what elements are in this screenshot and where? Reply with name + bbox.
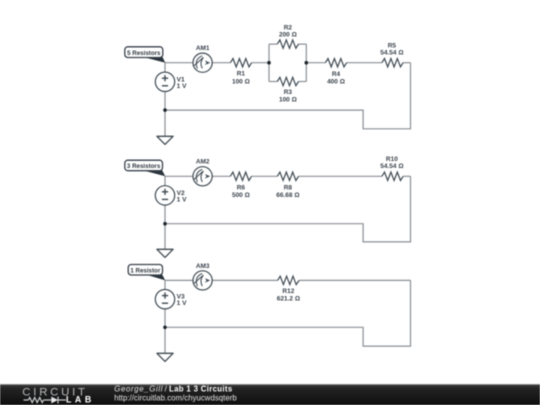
label R12 value bbox=[277, 288, 300, 303]
svg-text:AM3: AM3 bbox=[196, 263, 210, 270]
wire bottom branch right lead bbox=[299, 81, 307, 83]
wire V1 bottom stem bbox=[164, 91, 166, 110]
wire return path circuit 1 bbox=[165, 63, 411, 129]
wire top branch right lead bbox=[299, 43, 307, 45]
wire bottom branch left lead bbox=[269, 81, 277, 83]
CircuitLab logo diode triangle bbox=[51, 397, 58, 404]
svg-text:5 Resistors: 5 Resistors bbox=[127, 50, 161, 57]
wire node1 to AM1 bbox=[165, 62, 193, 64]
label R2 value bbox=[279, 25, 297, 39]
wire R12 to right corner bbox=[299, 279, 410, 281]
wire R4 to R5 bbox=[347, 62, 382, 64]
junction dot below V1 bbox=[163, 108, 167, 112]
resistor R6 bbox=[230, 172, 251, 180]
svg-text:3 Resistors: 3 Resistors bbox=[127, 163, 161, 170]
svg-text:R8: R8 bbox=[284, 185, 293, 192]
svg-text:1 V: 1 V bbox=[177, 83, 187, 90]
svg-text:621.2 Ω: 621.2 Ω bbox=[277, 296, 300, 303]
svg-text:66.68 Ω: 66.68 Ω bbox=[276, 192, 299, 199]
resistor R4 bbox=[325, 59, 346, 67]
ground G2 bbox=[157, 249, 173, 257]
junction dot below V3 bbox=[163, 326, 167, 330]
wire AM3 to R12 bbox=[212, 279, 277, 281]
svg-text:http://circuitlab.com/chyucwds: http://circuitlab.com/chyucwdsqterb bbox=[114, 393, 237, 402]
junction dot below V2 bbox=[163, 222, 167, 226]
label V1 value bbox=[177, 76, 187, 90]
CircuitLab logo circuit drawing bbox=[24, 397, 67, 404]
svg-text:1 V: 1 V bbox=[177, 196, 187, 203]
resistor R1 bbox=[230, 59, 251, 67]
wire R1 to node B bbox=[252, 62, 269, 64]
wire parallel box right vertical bbox=[305, 44, 307, 81]
label R10 value bbox=[380, 156, 403, 170]
wire AM1 to R1 bbox=[212, 62, 230, 64]
resistor R12 bbox=[278, 276, 300, 284]
wire V2 top stem bbox=[164, 176, 166, 186]
annotation callout "3 Resistors" bbox=[125, 160, 166, 176]
annotation callout "5 Resistors" bbox=[125, 47, 166, 63]
ammeter AM3 bbox=[193, 271, 212, 290]
svg-text:1 V: 1 V bbox=[177, 300, 187, 307]
svg-text:R1: R1 bbox=[237, 70, 246, 77]
voltage source V3 bbox=[155, 290, 174, 309]
ground G1 bbox=[157, 136, 173, 144]
svg-text:1 Resistor: 1 Resistor bbox=[130, 268, 161, 275]
wire top branch left lead bbox=[269, 43, 277, 45]
wire node C to R4 bbox=[306, 62, 325, 64]
resistor R2 bbox=[277, 40, 298, 48]
svg-text:R3: R3 bbox=[284, 89, 293, 96]
svg-text:George_Gill: George_Gill bbox=[114, 384, 162, 393]
label R8 value bbox=[276, 185, 299, 199]
svg-text:R4: R4 bbox=[332, 71, 341, 78]
svg-text:100 Ω: 100 Ω bbox=[232, 79, 250, 86]
svg-text:54.54 Ω: 54.54 Ω bbox=[380, 163, 403, 170]
resistor R5 bbox=[382, 59, 403, 67]
voltage source V1 bbox=[155, 72, 174, 91]
svg-text:AM1: AM1 bbox=[196, 45, 210, 52]
label R1 value bbox=[232, 70, 250, 85]
svg-text:LAB: LAB bbox=[66, 394, 91, 404]
svg-text:100 Ω: 100 Ω bbox=[279, 96, 297, 103]
svg-text:R2: R2 bbox=[284, 25, 293, 32]
wire return path circuit 2 bbox=[165, 176, 411, 242]
label R6 value bbox=[232, 185, 250, 199]
wire return path circuit 3 bbox=[165, 280, 411, 346]
svg-text:AM2: AM2 bbox=[196, 159, 210, 166]
wire V2 bottom stem bbox=[164, 205, 166, 224]
ground G3 bbox=[157, 353, 173, 361]
resistor R10 bbox=[382, 172, 403, 180]
svg-text:Lab 1 3 Circuits: Lab 1 3 Circuits bbox=[169, 384, 233, 393]
wire parallel box left vertical bbox=[268, 44, 270, 81]
label R4 value bbox=[327, 71, 345, 85]
svg-text:500 Ω: 500 Ω bbox=[232, 192, 250, 199]
label V3 value bbox=[177, 294, 187, 308]
resistor R3 bbox=[277, 77, 298, 85]
label R5 value bbox=[380, 43, 403, 57]
wire node2 to AM2 bbox=[165, 175, 193, 177]
ammeter AM1 bbox=[193, 53, 212, 72]
svg-text:R6: R6 bbox=[237, 185, 246, 192]
wire R5 to right corner bbox=[403, 62, 410, 64]
voltage source V2 bbox=[155, 186, 174, 205]
wire V1 top stem bbox=[164, 63, 166, 72]
svg-text:400 Ω: 400 Ω bbox=[327, 79, 345, 86]
wire R8 to R10 bbox=[299, 175, 382, 177]
svg-text:R10: R10 bbox=[386, 156, 398, 163]
node C junction dot bbox=[305, 61, 309, 65]
node B junction dot bbox=[267, 61, 271, 65]
wire node3 to AM3 bbox=[165, 279, 193, 281]
annotation callout "1 Resistor" bbox=[128, 265, 165, 281]
wire ground3 stem bbox=[164, 327, 166, 353]
svg-text:54.54 Ω: 54.54 Ω bbox=[380, 49, 403, 56]
wire V3 bottom stem bbox=[164, 309, 166, 327]
ammeter AM2 bbox=[193, 167, 212, 186]
wire ground2 stem bbox=[164, 224, 166, 250]
wire V3 top stem bbox=[164, 280, 166, 289]
resistor R8 bbox=[277, 172, 298, 180]
footer bar bbox=[0, 384, 540, 405]
footer title line bbox=[114, 384, 233, 393]
label R3 value bbox=[279, 89, 297, 103]
label V2 value bbox=[177, 190, 187, 204]
wire ground1 stem bbox=[164, 110, 166, 136]
svg-text:R12: R12 bbox=[282, 288, 294, 295]
svg-text:200 Ω: 200 Ω bbox=[279, 32, 297, 39]
wire R6 to R8 bbox=[252, 175, 278, 177]
wire R10 to right corner bbox=[403, 175, 410, 177]
wire AM2 to R6 bbox=[212, 175, 230, 177]
